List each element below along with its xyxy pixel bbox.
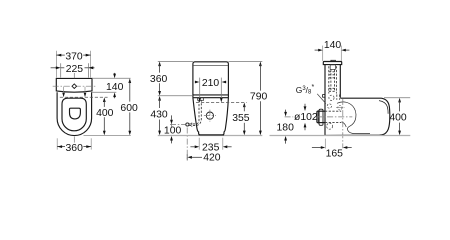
dim 225 extension line left [60, 63, 62, 77]
dim o102 arrows [304, 104, 307, 130]
outlet pipe outline [317, 111, 325, 122]
hinge level dashed line (front) [196, 101, 247, 103]
bottom extension line (view1) [84, 134, 131, 136]
outlet pipe hidden continuation bottom [325, 122, 341, 124]
svg-text:140: 140 [324, 40, 342, 51]
dim 225 line (outside arrows) [51, 66, 95, 69]
G3/8 leader line [317, 94, 326, 104]
svg-text:140: 140 [106, 82, 124, 93]
floor outlet centre line vertical [342, 99, 344, 148]
tank bottom extension line right [92, 91, 116, 93]
dim 400 side [398, 98, 401, 135]
svg-text:ø102: ø102 [294, 112, 318, 123]
dim 180 (outside arrows) [284, 110, 287, 144]
foot bottom line [199, 134, 224, 136]
bowl plan outline [57, 92, 92, 135]
cistern (tank) plan outline [56, 78, 92, 92]
dim 355 [243, 103, 246, 136]
lid button [331, 60, 336, 61]
svg-text:180: 180 [277, 123, 295, 134]
dim 165 (outside arrows) [312, 146, 352, 149]
fill valve internals dashed [329, 65, 337, 94]
tank bottom extension line left [158, 95, 193, 97]
dim 360 line [57, 145, 91, 148]
dim 100 (outside arrows) [170, 115, 173, 143]
G3/8 inlet dashed ellipse [329, 95, 334, 100]
svg-text:420: 420 [203, 153, 221, 164]
dim 360 extension lines [56, 138, 58, 149]
dim 370 extension line left [55, 51, 57, 78]
dim 370 extension line right [90, 51, 92, 78]
push button diamond [72, 84, 77, 89]
dim 140 (outside arrows, text between) [113, 73, 116, 98]
hinge centre line left with arrow [62, 87, 65, 98]
water surface shape [70, 108, 81, 119]
dim 210 (outside arrows) [195, 81, 226, 84]
svg-text:210: 210 [202, 78, 220, 89]
svg-text:360: 360 [66, 143, 84, 154]
svg-text:165: 165 [326, 149, 344, 160]
hinge dashed line [60, 96, 108, 98]
dim 600 [128, 78, 131, 135]
supply pipe (dashed) [189, 98, 203, 127]
dim 140 side (outside arrows) [315, 49, 350, 52]
tank lid line [193, 65, 228, 67]
svg-text:400: 400 [96, 108, 114, 119]
dim 140 side extension lines [322, 46, 324, 61]
tank top extension line left [158, 60, 193, 62]
svg-text:360: 360 [150, 74, 168, 85]
dim 790 [259, 62, 262, 136]
dim 165 extension lines [324, 139, 326, 149]
fixing hole circle [206, 112, 213, 119]
tank bottom line [193, 94, 229, 96]
bowl rim inner line [379, 101, 388, 114]
trap dashed curve outer [337, 102, 356, 126]
dim 420 (single arrow) [187, 154, 202, 160]
dim 235 extension lines [198, 138, 200, 150]
dim 400 (view1) [103, 97, 106, 135]
vertical centre line below bowl [73, 137, 75, 143]
svg-text:430: 430 [150, 110, 168, 121]
tank top extension line right [92, 77, 131, 79]
tank lid side [323, 62, 341, 65]
tank top extension line right [228, 60, 262, 62]
outlet flange [319, 109, 323, 125]
tank body side [325, 65, 340, 136]
bowl top extension line right [384, 97, 410, 99]
tank front outline [193, 62, 229, 98]
floor line side view [270, 135, 411, 137]
dim 430 [158, 96, 161, 135]
svg-text:600: 600 [120, 103, 138, 114]
svg-text:235: 235 [202, 142, 220, 153]
hole centre line left (210) with arrow [198, 78, 201, 103]
outlet pipe hidden continuation top [325, 110, 341, 112]
vertical centre line above tank [73, 73, 75, 78]
hinge centre line right with arrow [84, 87, 87, 98]
dim 225 extension line right [87, 63, 89, 77]
supply centre line horizontal [170, 124, 186, 126]
supply centre line vertical below [186, 128, 188, 162]
outlet channel dashed ellipse [327, 123, 333, 129]
hole centre line right (210) with arrow [220, 78, 223, 103]
trap dashed curve inner [347, 126, 370, 133]
supply valve circle [186, 123, 189, 126]
svg-text:355: 355 [232, 113, 250, 124]
dim 235 (outside arrows) [190, 145, 231, 148]
dim 370 line [56, 54, 90, 57]
bowl top line [193, 97, 229, 99]
svg-text:370: 370 [65, 51, 83, 62]
pedestal outline [193, 98, 229, 135]
seat opening outer [62, 98, 86, 131]
svg-text:790: 790 [250, 92, 268, 103]
floor line front view [158, 135, 262, 137]
tank centre line horizontal [53, 85, 96, 87]
fixing hole crosshair [204, 110, 216, 122]
svg-text:400: 400 [389, 113, 407, 124]
bowl side outline [325, 98, 390, 135]
outlet centre line horizontal [285, 116, 294, 118]
dim 360 front [158, 62, 161, 96]
